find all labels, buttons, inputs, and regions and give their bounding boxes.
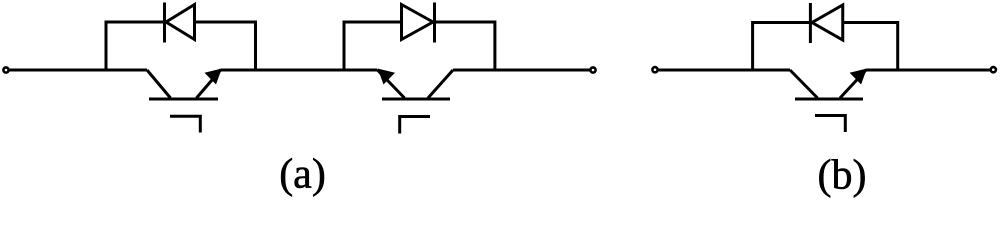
svg-text:(a): (a)	[279, 152, 326, 198]
svg-text:(b): (b)	[818, 153, 867, 199]
